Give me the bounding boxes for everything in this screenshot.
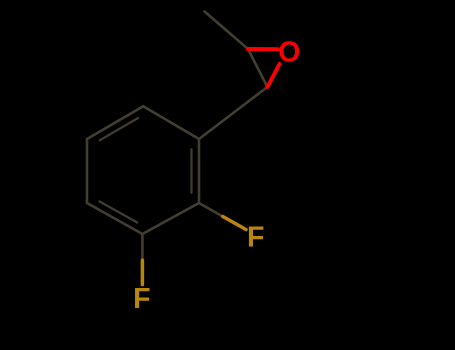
bond C-F left: fluorine half: [141, 260, 145, 284]
benzene double bond inner line V5-V6: [100, 118, 138, 140]
bond O-C2 red: [267, 64, 279, 87]
benzene ring edge V6-V1: [143, 106, 199, 139]
benzene ring edge V1-V2: [198, 139, 201, 203]
benzene double bond inner line V1-V2: [190, 149, 192, 193]
bond epoxide C3-C2: [248, 49, 267, 87]
bond ring ipso V1 to epoxide C2: [199, 87, 267, 139]
bond C3-O red: [248, 47, 278, 51]
svg-text:O: O: [278, 37, 300, 69]
benzene ring edge V3-V4: [87, 203, 142, 234]
bond C-F right: fluorine half: [223, 217, 246, 230]
benzene ring edge V2-V3: [142, 203, 199, 234]
bond methyl from C3: [205, 12, 249, 50]
benzene double bond inner line V3-V4: [100, 201, 138, 222]
benzene ring edge V5-V6: [87, 106, 143, 139]
bond C-F left: carbon half: [141, 234, 144, 260]
bond C-F right: carbon half: [199, 203, 223, 217]
benzene ring edge V4-V5: [86, 139, 89, 203]
svg-text:F: F: [247, 221, 264, 253]
svg-text:F: F: [133, 283, 150, 315]
